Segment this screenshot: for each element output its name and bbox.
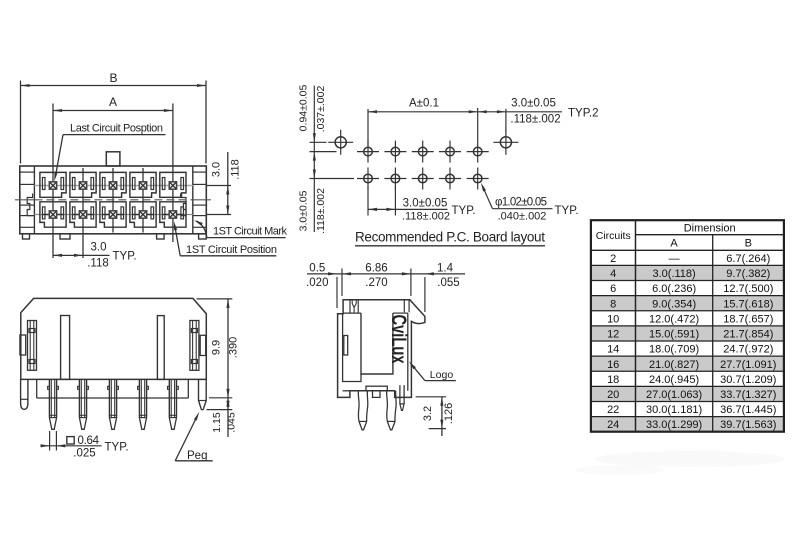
- svg-text:30.7(1.209): 30.7(1.209): [720, 374, 776, 386]
- svg-text:1ST Circuit Mark: 1ST Circuit Mark: [213, 225, 288, 237]
- svg-text:B: B: [745, 237, 752, 249]
- svg-text:.020: .020: [306, 277, 328, 289]
- svg-text:12.0(.472): 12.0(.472): [649, 313, 699, 325]
- svg-text:24: 24: [607, 419, 619, 431]
- svg-text:12: 12: [607, 329, 619, 341]
- svg-text:.118: .118: [229, 159, 241, 180]
- svg-text:CviLux: CviLux: [387, 315, 410, 364]
- svg-text:15.0(.591): 15.0(.591): [649, 329, 699, 341]
- svg-text:27.7(1.091): 27.7(1.091): [720, 359, 776, 371]
- svg-text:39.7(1.563): 39.7(1.563): [720, 419, 776, 431]
- svg-text:.270: .270: [365, 277, 387, 289]
- svg-text:3.0(.118): 3.0(.118): [652, 268, 695, 280]
- svg-text:6.0(.236): 6.0(.236): [652, 283, 696, 295]
- svg-text:9.0(.354): 9.0(.354): [652, 298, 696, 310]
- svg-text:0.5: 0.5: [309, 262, 325, 274]
- svg-text:16: 16: [607, 359, 619, 371]
- svg-text:14: 14: [607, 344, 619, 356]
- svg-text:TYP.: TYP.: [555, 205, 579, 217]
- svg-text:3.0: 3.0: [211, 162, 223, 177]
- svg-text:3.0±0.05: 3.0±0.05: [511, 97, 556, 109]
- svg-text:33.0(1.299): 33.0(1.299): [646, 419, 702, 431]
- svg-text:1.4: 1.4: [437, 262, 454, 274]
- svg-text:.118±.002: .118±.002: [402, 211, 450, 223]
- svg-text:B: B: [109, 71, 117, 85]
- svg-text:36.7(1.445): 36.7(1.445): [720, 404, 776, 416]
- svg-text:3.0±0.05: 3.0±0.05: [297, 190, 309, 231]
- svg-text:Dimension: Dimension: [684, 222, 736, 234]
- svg-text:6: 6: [610, 283, 616, 295]
- svg-text:18.7(.657): 18.7(.657): [723, 313, 773, 325]
- svg-text:φ1.02±0.05: φ1.02±0.05: [495, 197, 547, 209]
- svg-text:2: 2: [610, 253, 616, 265]
- svg-text:0.64: 0.64: [78, 435, 100, 447]
- svg-text:.040±.002: .040±.002: [498, 211, 547, 223]
- svg-text:24.7(.972): 24.7(.972): [723, 344, 773, 356]
- svg-text:22: 22: [607, 404, 619, 416]
- svg-text:15.7(.618): 15.7(.618): [723, 298, 773, 310]
- svg-text:6.7(.264): 6.7(.264): [726, 253, 770, 265]
- svg-text:3.2: 3.2: [422, 406, 434, 421]
- svg-text:A: A: [109, 95, 117, 109]
- svg-text:30.0(1.181): 30.0(1.181): [646, 404, 702, 416]
- svg-text:Circuits: Circuits: [596, 230, 631, 242]
- svg-text:0.94±0.05: 0.94±0.05: [297, 85, 309, 132]
- svg-text:3.0: 3.0: [91, 242, 107, 254]
- svg-text:A±0.1: A±0.1: [409, 98, 439, 110]
- svg-text:12.7(.500): 12.7(.500): [723, 283, 773, 295]
- svg-text:—: —: [669, 253, 680, 265]
- svg-text:10: 10: [607, 313, 619, 325]
- svg-text:.390: .390: [228, 337, 240, 358]
- svg-text:27.0(1.063): 27.0(1.063): [646, 389, 702, 401]
- svg-text:.118: .118: [87, 258, 109, 270]
- svg-text:TYP.: TYP.: [105, 441, 129, 453]
- svg-text:18.0(.709): 18.0(.709): [649, 344, 699, 356]
- svg-text:Last Circuit Posption: Last Circuit Posption: [70, 122, 163, 134]
- svg-text:21.7(.854): 21.7(.854): [723, 329, 773, 341]
- svg-text:3.0±0.05: 3.0±0.05: [403, 197, 448, 209]
- svg-text:TYP.: TYP.: [452, 205, 476, 217]
- svg-text:.045: .045: [226, 412, 238, 433]
- svg-text:9.9: 9.9: [211, 340, 223, 355]
- svg-text:TYP.: TYP.: [113, 251, 137, 263]
- svg-text:.126: .126: [443, 403, 455, 424]
- svg-text:Peg: Peg: [187, 450, 207, 462]
- svg-text:8: 8: [610, 298, 616, 310]
- svg-text:18: 18: [607, 374, 619, 386]
- svg-text:6.86: 6.86: [365, 262, 387, 274]
- svg-text:.118±.002: .118±.002: [510, 113, 560, 125]
- svg-text:4: 4: [610, 268, 616, 280]
- svg-text:1.15: 1.15: [211, 412, 223, 433]
- svg-text:33.7(1.327): 33.7(1.327): [720, 389, 776, 401]
- svg-text:24.0(.945): 24.0(.945): [649, 374, 699, 386]
- svg-text:20: 20: [607, 389, 619, 401]
- svg-text:1ST Circuit Position: 1ST Circuit Position: [186, 244, 277, 256]
- svg-text:TYP.2: TYP.2: [568, 108, 598, 120]
- svg-text:9.7(.382): 9.7(.382): [726, 268, 770, 280]
- svg-text:Recommended P.C. Board layout: Recommended P.C. Board layout: [355, 230, 545, 245]
- svg-text:21.0(.827): 21.0(.827): [649, 359, 699, 371]
- svg-text:.037±.002: .037±.002: [315, 86, 327, 133]
- svg-text:Logo: Logo: [430, 369, 454, 381]
- svg-text:.025: .025: [73, 447, 95, 459]
- svg-text:.118±.002: .118±.002: [315, 188, 327, 234]
- svg-text:A: A: [670, 237, 678, 249]
- svg-text:.055: .055: [437, 277, 459, 289]
